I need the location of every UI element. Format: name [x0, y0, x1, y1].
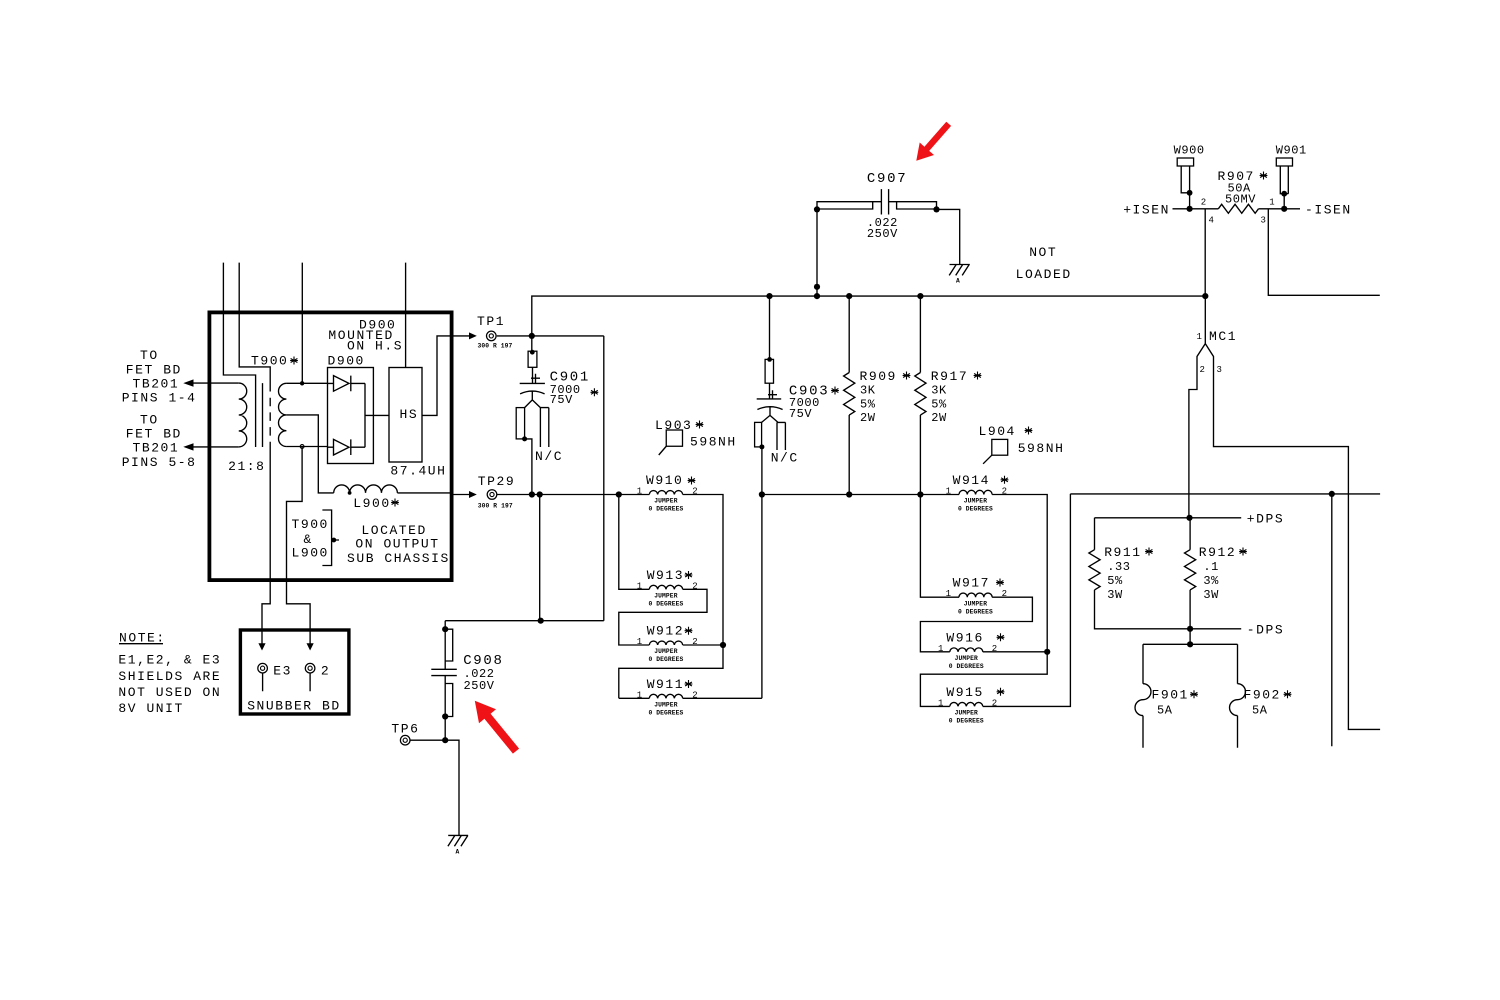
svg-text:5A: 5A — [1252, 704, 1268, 718]
svg-text:2: 2 — [992, 698, 997, 708]
svg-text:300 R 197: 300 R 197 — [478, 502, 513, 509]
svg-text:W900: W900 — [1174, 144, 1205, 158]
svg-text:LOADED: LOADED — [1016, 267, 1072, 282]
svg-text:2: 2 — [1002, 487, 1007, 497]
svg-text:JUMPER: JUMPER — [654, 593, 677, 600]
svg-text:0 DEGREES: 0 DEGREES — [649, 506, 684, 513]
svg-text:F902: F902 — [1244, 688, 1281, 703]
svg-text:3W: 3W — [1107, 588, 1123, 602]
svg-text:W916: W916 — [946, 630, 983, 645]
svg-text:2: 2 — [692, 487, 697, 497]
svg-text:SNUBBER BD: SNUBBER BD — [247, 699, 341, 714]
svg-text:5%: 5% — [860, 398, 876, 412]
svg-text:PINS 1-4: PINS 1-4 — [122, 391, 197, 406]
svg-text:21:8: 21:8 — [228, 459, 265, 474]
svg-text:JUMPER: JUMPER — [654, 702, 677, 709]
svg-text:JUMPER: JUMPER — [955, 710, 978, 717]
svg-text:E3: E3 — [273, 663, 292, 678]
svg-text:W911: W911 — [647, 677, 684, 692]
svg-text:TO: TO — [140, 348, 159, 363]
svg-text:E1,E2, & E3: E1,E2, & E3 — [118, 653, 221, 668]
svg-text:TP29: TP29 — [478, 474, 515, 489]
svg-text:NOT USED ON: NOT USED ON — [118, 685, 221, 700]
svg-text:1: 1 — [637, 637, 642, 647]
svg-text:L904: L904 — [979, 424, 1016, 439]
svg-text:TB201: TB201 — [133, 441, 180, 456]
svg-text:2: 2 — [692, 637, 697, 647]
svg-text:FET BD: FET BD — [126, 427, 182, 442]
svg-text:2W: 2W — [931, 411, 947, 425]
svg-text:TB201: TB201 — [133, 377, 180, 392]
svg-text:W914: W914 — [953, 473, 990, 488]
svg-text:.33: .33 — [1107, 560, 1130, 574]
svg-text:.1: .1 — [1203, 560, 1219, 574]
svg-text:NOT: NOT — [1029, 245, 1057, 260]
svg-text:JUMPER: JUMPER — [654, 498, 677, 505]
svg-text:2: 2 — [692, 690, 697, 700]
svg-text:8V UNIT: 8V UNIT — [118, 701, 183, 716]
svg-text:+DPS: +DPS — [1247, 512, 1284, 527]
svg-text:5A: 5A — [1157, 704, 1173, 718]
svg-text:T900: T900 — [292, 517, 329, 532]
svg-text:87.4UH: 87.4UH — [390, 464, 446, 479]
svg-text:W910: W910 — [646, 473, 683, 488]
svg-text:1: 1 — [946, 589, 951, 599]
svg-text:W917: W917 — [953, 576, 990, 591]
svg-text:A: A — [956, 278, 960, 285]
svg-text:-DPS: -DPS — [1247, 623, 1284, 638]
svg-text:R911: R911 — [1104, 545, 1141, 560]
svg-text:0 DEGREES: 0 DEGREES — [649, 656, 684, 663]
svg-text:A: A — [456, 849, 460, 856]
svg-text:1: 1 — [637, 581, 642, 591]
svg-text:N/C: N/C — [771, 451, 799, 466]
svg-text:1: 1 — [938, 644, 943, 654]
svg-text:W901: W901 — [1276, 144, 1307, 158]
svg-text:TP6: TP6 — [391, 722, 419, 737]
svg-text:R917: R917 — [931, 369, 968, 384]
svg-text:0 DEGREES: 0 DEGREES — [949, 663, 984, 670]
svg-text:5%: 5% — [1107, 574, 1123, 588]
svg-text:PINS 5-8: PINS 5-8 — [122, 455, 197, 470]
svg-text:L903: L903 — [655, 418, 692, 433]
svg-text:1: 1 — [1269, 198, 1274, 208]
svg-text:2: 2 — [692, 581, 697, 591]
svg-text:3W: 3W — [1203, 588, 1219, 602]
svg-text:75V: 75V — [550, 393, 574, 407]
svg-text:L900: L900 — [292, 546, 329, 561]
svg-text:FET BD: FET BD — [126, 362, 182, 377]
svg-text:300 R 197: 300 R 197 — [478, 342, 513, 349]
svg-text:3K: 3K — [860, 384, 876, 398]
svg-text:JUMPER: JUMPER — [654, 648, 677, 655]
svg-text:0 DEGREES: 0 DEGREES — [958, 506, 993, 513]
svg-text:2: 2 — [992, 644, 997, 654]
svg-text:2: 2 — [1200, 365, 1205, 375]
svg-text:ON H.S: ON H.S — [347, 339, 403, 354]
svg-text:2W: 2W — [860, 411, 876, 425]
svg-text:2: 2 — [1002, 589, 1007, 599]
svg-text:3%: 3% — [1203, 574, 1219, 588]
svg-text:598NH: 598NH — [690, 435, 737, 450]
svg-text:1: 1 — [637, 690, 642, 700]
svg-text:1: 1 — [938, 698, 943, 708]
svg-text:C907: C907 — [867, 171, 907, 187]
svg-text:D900: D900 — [328, 354, 365, 369]
svg-text:W913: W913 — [647, 568, 684, 583]
svg-text:250V: 250V — [464, 679, 495, 693]
svg-text:HS: HS — [400, 407, 419, 422]
svg-text:W915: W915 — [946, 685, 983, 700]
svg-text:L900: L900 — [353, 496, 390, 511]
svg-text:NOTE:: NOTE: — [119, 631, 166, 646]
svg-text:5%: 5% — [931, 398, 947, 412]
svg-text:JUMPER: JUMPER — [964, 498, 987, 505]
svg-text:2: 2 — [1201, 198, 1206, 208]
svg-text:4: 4 — [1209, 216, 1214, 226]
svg-text:50MV: 50MV — [1225, 192, 1256, 206]
svg-text:R912: R912 — [1199, 545, 1236, 560]
svg-text:R909: R909 — [860, 369, 897, 384]
svg-text:1: 1 — [1197, 332, 1202, 342]
svg-text:TO: TO — [140, 412, 159, 427]
svg-text:SHIELDS ARE: SHIELDS ARE — [118, 669, 221, 684]
svg-text:T900: T900 — [251, 354, 288, 369]
svg-text:ON OUTPUT: ON OUTPUT — [355, 537, 439, 552]
svg-text:N/C: N/C — [535, 449, 563, 464]
svg-text:0 DEGREES: 0 DEGREES — [649, 710, 684, 717]
svg-text:1: 1 — [637, 487, 642, 497]
svg-text:+ISEN: +ISEN — [1123, 203, 1170, 218]
svg-text:SUB CHASSIS: SUB CHASSIS — [347, 551, 450, 566]
svg-text:TP1: TP1 — [477, 314, 505, 329]
svg-text:2: 2 — [321, 663, 330, 678]
svg-text:0 DEGREES: 0 DEGREES — [949, 718, 984, 725]
svg-text:598NH: 598NH — [1018, 441, 1065, 456]
svg-text:F901: F901 — [1152, 688, 1189, 703]
svg-text:0 DEGREES: 0 DEGREES — [649, 601, 684, 608]
svg-text:1: 1 — [946, 487, 951, 497]
svg-text:W912: W912 — [647, 624, 684, 639]
svg-text:MC1: MC1 — [1209, 329, 1237, 344]
svg-text:-ISEN: -ISEN — [1305, 202, 1352, 217]
svg-text:JUMPER: JUMPER — [964, 600, 987, 607]
svg-text:JUMPER: JUMPER — [955, 655, 978, 662]
svg-text:0 DEGREES: 0 DEGREES — [958, 608, 993, 615]
svg-text:3: 3 — [1217, 365, 1222, 375]
svg-text:250V: 250V — [867, 227, 898, 241]
svg-text:3K: 3K — [931, 384, 947, 398]
svg-text:3: 3 — [1261, 216, 1266, 226]
svg-text:75V: 75V — [789, 407, 813, 421]
